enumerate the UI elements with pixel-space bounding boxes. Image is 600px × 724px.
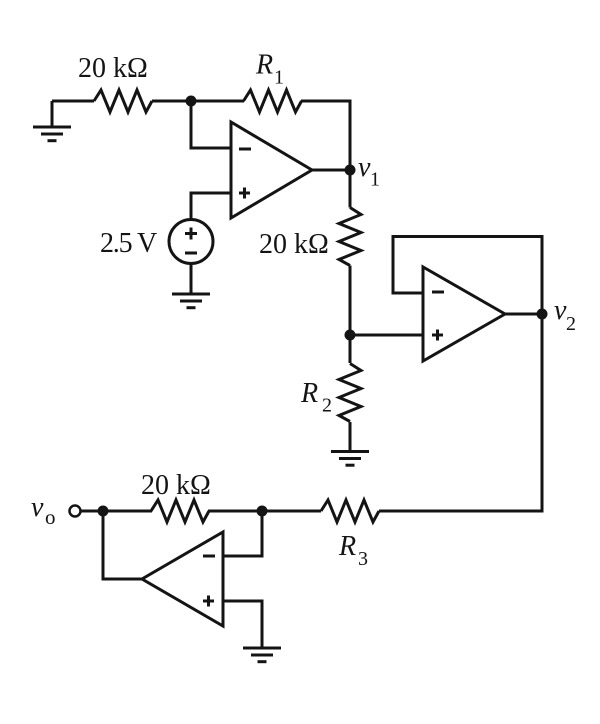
ground G2	[172, 294, 210, 308]
svg-text:20 kΩ: 20 kΩ	[78, 53, 148, 84]
wire node D to terminal vo	[80, 510, 103, 513]
svg-text:R: R	[338, 531, 356, 562]
wire node A to U1 inverting input	[191, 101, 231, 148]
svg-text:v: v	[31, 492, 44, 523]
wire source to ground G2	[190, 264, 193, 295]
node A junction dot	[186, 96, 197, 107]
resistor R3	[321, 500, 379, 522]
svg-text:3: 3	[358, 548, 368, 570]
wire U1 noninverting input to source	[191, 193, 231, 220]
wire junction B to U2 noninverting input	[350, 334, 423, 337]
wire R1 to v1 corner	[301, 101, 350, 170]
svg-text:2: 2	[322, 395, 332, 417]
resistor 20 kOhm output	[151, 500, 209, 522]
wire resistor to node D	[103, 510, 152, 513]
resistor 20 kOhm input	[94, 90, 152, 112]
wire v2 down right side to R3	[379, 314, 542, 511]
node B junction dot	[345, 330, 356, 341]
wire U3 noninverting input to ground G4	[223, 601, 262, 648]
svg-text:1: 1	[370, 169, 380, 191]
terminal vo open circle	[70, 506, 81, 517]
resistor 20 kOhm middle (vertical)	[339, 208, 361, 266]
svg-text:20 kΩ: 20 kΩ	[141, 470, 211, 501]
resistor R2 (vertical)	[339, 364, 361, 422]
ground G4	[243, 648, 281, 662]
node D junction dot	[98, 506, 109, 517]
wire ground to input resistor	[52, 100, 94, 103]
svg-text:o: o	[45, 505, 56, 529]
svg-text:1: 1	[274, 67, 284, 89]
wire middle resistor to junction B	[349, 266, 352, 336]
wire node C down to U3 inverting input	[223, 511, 262, 556]
svg-text:20 kΩ: 20 kΩ	[259, 229, 329, 260]
node C junction dot	[257, 506, 268, 517]
wire U1 output to node v1	[312, 169, 350, 172]
op-amp U1	[231, 122, 312, 218]
node v1 junction dot	[345, 165, 356, 176]
ground G3	[331, 452, 369, 466]
wire v1 down to middle resistor	[349, 170, 352, 208]
svg-text:V: V	[137, 228, 157, 259]
op-amp U2	[423, 267, 505, 361]
voltage source 2.5 V	[169, 220, 213, 264]
svg-text:R: R	[255, 50, 273, 81]
svg-text:2: 2	[566, 313, 576, 335]
ground G1 top-left	[33, 101, 71, 141]
wire R2 to ground G3	[349, 422, 352, 452]
wire node C to output resistor	[208, 510, 262, 513]
wire U2 feedback loop	[393, 237, 542, 315]
op-amp U3 (points left)	[142, 532, 223, 626]
wire U2 output to node v2	[505, 313, 542, 316]
resistor R1	[244, 90, 302, 112]
svg-text:2.5: 2.5	[100, 228, 132, 259]
svg-text:R: R	[300, 378, 318, 409]
node v2 junction dot	[537, 309, 548, 320]
wire resistor to node A	[152, 100, 191, 103]
wire junction B down to R2	[349, 335, 352, 363]
wire R3 to node C	[262, 510, 321, 513]
wire U3 output to node D	[103, 511, 142, 579]
wire node A to R1	[191, 100, 244, 103]
